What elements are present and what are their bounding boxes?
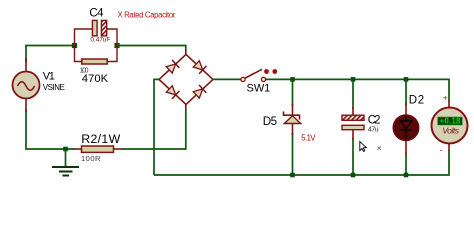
meter minus terminal bbox=[440, 145, 443, 155]
resistor R2/1W bbox=[74, 146, 122, 152]
svg-text:470K: 470K bbox=[82, 73, 109, 85]
diode D (bridge bottom-left) bbox=[166, 85, 180, 99]
node: ground junction bbox=[63, 147, 68, 152]
LED D2 bbox=[393, 103, 419, 155]
label D5 bbox=[263, 115, 277, 128]
node: C2 top junction bbox=[351, 77, 356, 82]
capacitor C2 bbox=[342, 107, 364, 140]
wire meter column bottom rail bbox=[154, 150, 449, 175]
value 100R bbox=[81, 154, 101, 163]
svg-text:+: + bbox=[443, 92, 448, 102]
node: D2 bottom junction bbox=[404, 173, 409, 178]
wire from V1 bottom along bottom-left to R2 bbox=[26, 109, 75, 149]
svg-text:V1: V1 bbox=[43, 71, 55, 83]
svg-text:×: × bbox=[377, 143, 382, 153]
voltage source V1 bbox=[13, 58, 40, 112]
resistor R1 470K bbox=[82, 59, 107, 64]
wire C2 column bottom bbox=[352, 138, 354, 175]
wire from RC pair to bridge top bbox=[117, 46, 186, 51]
node: D2 top junction bbox=[404, 77, 409, 82]
bridge rectifier D1-D4 bbox=[159, 50, 213, 104]
wire C2 column top bbox=[352, 79, 354, 109]
zener diode D5 bbox=[284, 104, 301, 135]
svg-text:-: - bbox=[440, 145, 443, 155]
svg-text:0.47uF: 0.47uF bbox=[90, 36, 110, 43]
value 0.47uF bbox=[90, 36, 110, 43]
label SW1 bbox=[247, 82, 271, 94]
wire output rail (top) bbox=[266, 79, 449, 101]
label C4 bbox=[89, 8, 104, 20]
wire from V1 top to RC node bbox=[26, 46, 75, 63]
wire D2 column bottom bbox=[405, 153, 407, 175]
label V1 bbox=[43, 71, 55, 83]
ground bbox=[52, 149, 79, 176]
switch SW1 bbox=[241, 69, 277, 81]
label X Rated Capacitor bbox=[118, 11, 176, 20]
value 47u bbox=[368, 124, 379, 133]
diode D (bridge top-right) bbox=[193, 60, 207, 74]
label C2 bbox=[368, 115, 381, 127]
svg-text:D2: D2 bbox=[409, 95, 424, 107]
wire bridge left node to bottom rail bbox=[154, 79, 159, 175]
diode D (bridge bottom-right) bbox=[193, 85, 207, 99]
svg-text:47u: 47u bbox=[368, 124, 379, 133]
svg-text:5.1V: 5.1V bbox=[301, 134, 316, 143]
svg-text:X Rated Capacitor: X Rated Capacitor bbox=[118, 11, 176, 20]
wire bridge bottom node to R2 bbox=[122, 104, 186, 149]
svg-text:100R: 100R bbox=[81, 154, 101, 163]
svg-text:C4: C4 bbox=[89, 8, 104, 20]
svg-text:Volts: Volts bbox=[442, 126, 460, 136]
cross mark bbox=[377, 143, 382, 153]
node B: junction right of RC pair bbox=[114, 43, 119, 48]
pin loop of C4/R1 parallel pair bbox=[75, 29, 118, 62]
value 100 (R1 model text) bbox=[80, 68, 89, 75]
label 470K bbox=[82, 73, 109, 85]
wire D5 column bottom bbox=[292, 133, 294, 175]
svg-text:D5: D5 bbox=[263, 115, 277, 128]
node: C2 bottom junction bbox=[351, 173, 356, 178]
node: D5 top junction bbox=[290, 77, 295, 82]
value 5.1V bbox=[301, 134, 316, 143]
mouse cursor bbox=[360, 142, 367, 152]
capacitor C4 bbox=[92, 20, 106, 36]
svg-text:VSINE: VSINE bbox=[43, 83, 65, 92]
meter plus terminal bbox=[443, 92, 448, 102]
voltmeter bbox=[432, 100, 468, 151]
node: D5 bottom junction bbox=[290, 173, 295, 178]
svg-text:R2/1W: R2/1W bbox=[81, 132, 120, 146]
wire D2 column top bbox=[405, 79, 407, 105]
svg-text:+0.18: +0.18 bbox=[440, 117, 462, 126]
diode D (bridge top-left) bbox=[166, 60, 180, 74]
label R2/1W bbox=[81, 132, 120, 146]
label VSINE bbox=[43, 83, 65, 92]
wire bridge right node to switch bbox=[213, 78, 241, 80]
svg-text:SW1: SW1 bbox=[247, 82, 271, 94]
wire D5 column top bbox=[292, 79, 294, 106]
label D2 bbox=[409, 95, 424, 107]
node A: junction left of RC pair bbox=[72, 43, 77, 48]
